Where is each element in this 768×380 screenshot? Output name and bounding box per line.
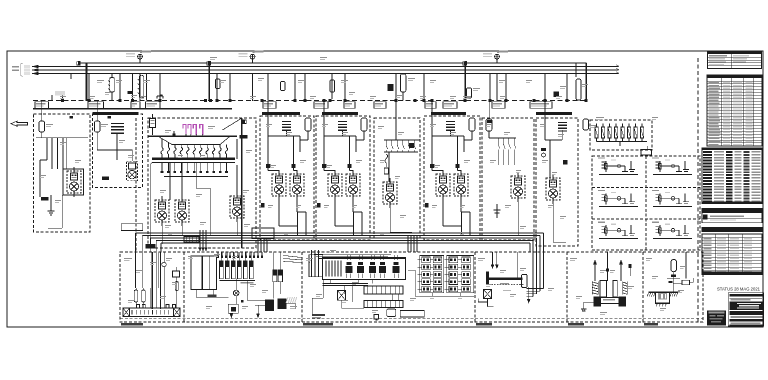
tank middle wire [607, 252, 609, 281]
Q03 fan drops [161, 139, 228, 159]
logo block [707, 311, 726, 326]
motor starter M07 [511, 172, 525, 202]
module4 gray tag [500, 283, 509, 284]
title column fold line [697, 58, 699, 322]
module4 hatch dots [491, 284, 523, 285]
resistor bank [219, 252, 253, 279]
Q08 breaker [486, 119, 492, 131]
Q07 wiring [431, 101, 433, 164]
panel box Q07 [424, 116, 480, 240]
X contact box [338, 291, 346, 301]
pit hatching [647, 292, 678, 307]
aux circuit A1R [652, 158, 692, 175]
section header bar x536 [536, 112, 572, 115]
busbar end hooks [617, 65, 619, 67]
bottom panels outline [120, 252, 703, 322]
tank bottom [594, 297, 626, 299]
switch S3c [281, 82, 286, 91]
Q09 relay [541, 148, 546, 151]
PLC lower bus [323, 283, 368, 285]
wire comb [217, 252, 263, 258]
fuse F3 [193, 125, 196, 136]
Q03 sub bus [152, 158, 235, 160]
motor starter M06 [383, 178, 397, 208]
terminal row 2 [364, 301, 403, 308]
component reference labels [40, 57, 685, 315]
busbar L2 [33, 69, 619, 71]
module6 supply wire [685, 252, 687, 278]
module2 lower wires [195, 290, 197, 298]
panel box Q01 [34, 114, 91, 232]
feeder label box x443 [443, 102, 457, 109]
motor starter Q07b [454, 170, 468, 200]
aux contact K3 [553, 92, 559, 98]
bundle box [252, 228, 274, 239]
feeder label box x374 [374, 102, 386, 109]
Q08 fan [488, 101, 490, 119]
Q08 cross mark [496, 204, 498, 218]
switch S7 [583, 119, 589, 130]
thick drop D [585, 63, 587, 101]
Q03 terminal bar [146, 244, 156, 249]
section header bar x92.5 [93, 112, 139, 115]
Q03 bus blob [240, 135, 248, 139]
legend table G [702, 234, 762, 275]
motor starter M03 [155, 196, 169, 226]
panel name tag x644 [644, 323, 658, 326]
panel name tag x303 [303, 323, 333, 326]
Q05 aux contacts [322, 164, 326, 168]
fuse F4 [200, 125, 203, 136]
pump symbol P1 [233, 290, 239, 296]
control wiring bundle [136, 233, 544, 252]
feeder label box x425 [425, 102, 436, 109]
busbar L3 [33, 73, 619, 75]
Q07 hatch block [446, 122, 455, 131]
PLC frame [323, 258, 406, 280]
thick riser TB [151, 252, 153, 309]
Q03 B mark [241, 120, 244, 125]
Q05 hatch block [338, 122, 347, 131]
Q09 contact [563, 160, 568, 165]
tank wall left [600, 280, 606, 297]
motor starter Q07a [436, 170, 450, 200]
terminal strip bus [597, 141, 648, 143]
Q04 breaker [305, 118, 311, 131]
tie connection B2 [208, 61, 211, 65]
sub distribution line [33, 108, 232, 110]
bundle risers [257, 238, 259, 252]
Q07 breaker [469, 118, 475, 131]
relay block dark 1 [265, 299, 274, 311]
arrow wires down [199, 230, 201, 249]
Q03 tier bus 2 [164, 176, 228, 178]
Q01 starter frame [63, 169, 84, 195]
drain ground line [649, 291, 681, 293]
probe wires [135, 252, 137, 288]
transformer coil 3 [210, 256, 217, 290]
relay block dark 2 [278, 298, 287, 309]
riser CT1 [139, 54, 141, 63]
module4 bundle corners [527, 252, 544, 297]
Q07 outgoing [442, 200, 444, 226]
merge wires [284, 256, 302, 258]
Q04 aux contacts [266, 164, 270, 168]
riser CT2 [252, 54, 254, 63]
level probe 1 [134, 290, 137, 302]
Q05 left blob [317, 203, 321, 208]
L marks [70, 116, 74, 118]
module3 stub wires [322, 280, 324, 298]
bundle risers right [407, 236, 409, 252]
incoming feeder arrow [11, 121, 28, 126]
Q05 wiring [323, 101, 325, 164]
Q01 aux bars [41, 197, 48, 200]
relay row [364, 286, 403, 294]
Q03 junction stub [173, 131, 175, 136]
module4 z wire [487, 299, 489, 303]
panel box Q03 [148, 118, 256, 248]
motor starter M04 [175, 196, 189, 226]
Q04 wiring [267, 101, 269, 164]
Q09 outgoing [552, 204, 554, 242]
PLC wires down [329, 280, 331, 284]
switch S4 [401, 74, 406, 92]
PLC routing lines [314, 253, 391, 255]
Q05 outgoing [334, 200, 336, 226]
coil label bar [208, 294, 217, 297]
module4 down arrow [528, 287, 530, 300]
probe sensor [162, 262, 166, 266]
motor starter M05 [230, 192, 244, 222]
tie line top [79, 62, 586, 64]
terminal strip box [590, 120, 652, 150]
fuse F2 [188, 125, 191, 136]
breaker bank left [418, 256, 444, 293]
panel box Q08 [482, 118, 534, 240]
switch S1 [110, 78, 115, 93]
panel box Q06 [374, 118, 420, 238]
title block right [728, 293, 763, 327]
n marks [137, 305, 140, 309]
Q04 left blob [261, 203, 265, 208]
Q03 diagonal wire [222, 118, 241, 130]
cable schedule dense part [702, 148, 762, 204]
section header bar x431 [431, 112, 466, 115]
source labels [20, 64, 22, 76]
terminal strip elements [595, 124, 644, 142]
bank rule [220, 280, 256, 282]
band junction dots [61, 99, 64, 102]
expansion vessel [671, 260, 677, 272]
tank ground [583, 302, 585, 309]
tiny stub box [374, 315, 379, 320]
black band 1 [702, 201, 762, 204]
module4 entry arrows [492, 252, 494, 265]
revision table top [708, 51, 762, 69]
elbow wire [156, 96, 158, 99]
section header bar x322 [322, 112, 358, 115]
Q03 manifold [158, 136, 172, 144]
bundle tick box [184, 237, 199, 243]
switch S3b [216, 79, 221, 89]
tank wall right [613, 280, 617, 297]
Q08 outgoing [517, 198, 519, 236]
terminal strip notch [641, 150, 652, 156]
tank sensor stub [629, 268, 631, 276]
gray hatch [286, 297, 297, 303]
bank wires [420, 295, 474, 297]
motor starter Q05b [346, 170, 360, 200]
panel box Q04 [260, 116, 314, 240]
feeder label box x492 [492, 102, 505, 109]
motor starter Q05a [328, 170, 342, 200]
svg-text:STATUS 28 MAG 2021: STATUS 28 MAG 2021 [717, 287, 760, 293]
Q07 left blob [425, 203, 429, 208]
tank labels [603, 299, 615, 300]
Q03 thick riser [241, 118, 243, 248]
bottom strip lower rule [120, 318, 703, 320]
pump coil 1 [592, 282, 598, 295]
TB1 stubs [150, 288, 152, 308]
aux box [400, 311, 424, 318]
probe 3 [175, 282, 178, 291]
Q01 wiring [36, 137, 88, 139]
terminal strip TB1 [123, 308, 180, 317]
riser drops [139, 74, 141, 102]
aux circuit A3L [598, 222, 638, 239]
aux contact K1 [127, 91, 132, 94]
feeder label box x344 [344, 102, 355, 109]
motor starter Q04a [272, 170, 286, 200]
switch S2 [139, 75, 144, 98]
feeder label box x530 [530, 102, 552, 109]
Q01 ground [50, 195, 52, 211]
feeder label box x314 [314, 102, 328, 109]
note header 2 [702, 227, 762, 231]
Q04 outgoing [278, 200, 280, 226]
transformer coil 1 [191, 256, 202, 290]
tie connection B3 [464, 61, 467, 65]
fuse F1 [183, 125, 186, 136]
Q03 breaker QF3 [150, 119, 156, 128]
Q09 wiring [544, 101, 546, 140]
Q02 wiring [96, 101, 98, 121]
legend black row [702, 272, 762, 275]
pump coil 2 [623, 282, 627, 295]
module4 breaker [484, 290, 492, 299]
drain pit [656, 292, 670, 303]
Q09 hatch block [558, 123, 567, 131]
Q07 aux contacts [430, 164, 434, 168]
module4 right flange [522, 274, 527, 287]
module4 left flange [486, 271, 489, 284]
bus drop wires [51, 95, 53, 101]
capacitor block [273, 270, 277, 282]
timer box [387, 309, 396, 317]
source arrows L1 L2 L3 [31, 65, 39, 68]
tie connection B1 [78, 61, 81, 65]
Q02 aux bar [102, 176, 109, 180]
drawing border frame [7, 51, 763, 327]
Q02 breaker [94, 121, 100, 132]
junction rectlet [121, 224, 142, 231]
breaker bank right [444, 256, 473, 293]
aux contact K2 [388, 84, 394, 91]
Q06 contact [409, 143, 414, 148]
overflow pipe [673, 283, 682, 285]
aux circuit A3R [652, 222, 692, 239]
distribution bus dashed [33, 100, 588, 102]
panel name tag x476 [476, 323, 492, 326]
panel box Q02 [93, 114, 143, 188]
riser CT3 [496, 54, 498, 63]
feeder label box x131 [131, 102, 140, 109]
auxiliary circuits grid [592, 156, 700, 250]
thick drop A [86, 63, 88, 101]
aux circuit A2L [598, 190, 638, 207]
thick drop C [464, 63, 466, 101]
junction dot [241, 300, 244, 303]
Q03 riser wires [169, 162, 171, 200]
vessel fitting [671, 275, 676, 277]
transformer coil 2 [203, 256, 210, 290]
Q02 starter M02 [127, 162, 138, 181]
note box F [702, 208, 762, 222]
panel name tag x568 [568, 323, 584, 326]
pit internals [659, 292, 661, 299]
aux circuit A2R [652, 190, 692, 207]
Q08 junction blob [487, 120, 492, 123]
Q06 wiring [395, 101, 397, 141]
PLC entry box [309, 255, 323, 277]
level probe 2 [142, 290, 145, 302]
module2 down arrows [230, 312, 232, 315]
panel box Q09 [536, 118, 578, 246]
Q03 second tier drops [161, 162, 228, 173]
module4 center wire [517, 252, 519, 277]
relay link lines [255, 304, 265, 306]
Q04 hatch block [282, 122, 291, 131]
switch S6 [576, 79, 581, 100]
Q01 breaker [39, 121, 45, 132]
Q01 lower stub [61, 195, 63, 228]
aux circuit A1L [598, 158, 638, 175]
module3 label [312, 314, 325, 316]
tank arrows [593, 260, 597, 265]
contact box [228, 304, 238, 313]
switch S3 [331, 74, 333, 100]
motor starter M08 [546, 174, 560, 204]
busbar L1 [33, 66, 619, 68]
Q03 feed bus [148, 135, 237, 137]
feeder label box x35 [35, 102, 49, 109]
thick drop B [208, 63, 210, 101]
motor starter Q04b [290, 170, 304, 200]
feeder label box x263 [263, 102, 276, 109]
section header bar x262 [262, 112, 300, 115]
pressure switch [173, 271, 180, 277]
module4 crossbar [489, 278, 522, 281]
Q03 lower wires [161, 222, 163, 244]
Q06 inline switch [385, 154, 388, 163]
PLC relay figures [345, 255, 399, 278]
feeder label box x145.5 [146, 102, 161, 109]
motor starter M01 [67, 167, 81, 197]
PLC striping [326, 261, 341, 277]
module2 right vertical [273, 282, 275, 299]
drop E [575, 63, 577, 77]
Q05 breaker [361, 118, 367, 131]
panel box Q05 [316, 116, 370, 240]
cable schedule table [707, 75, 762, 146]
switch S5 [467, 88, 472, 98]
Q02 hatch block [111, 124, 124, 134]
feeder label box x88 [88, 102, 104, 109]
cabinet edge line [135, 118, 137, 252]
panel name tag x121 [121, 323, 143, 326]
